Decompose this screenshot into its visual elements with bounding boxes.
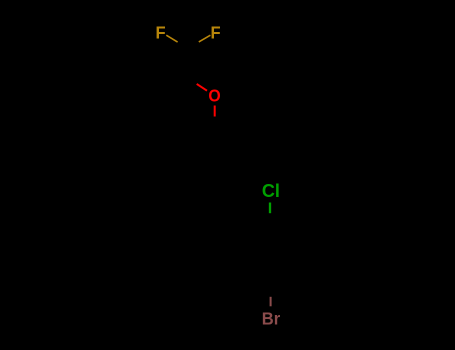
bond F1-C1 colored half — [166, 35, 177, 42]
ring A inner double bonds — [220, 134, 238, 144]
bond C2-O colored half — [197, 84, 207, 91]
ring B benzene — [243, 224, 299, 288]
ring A benzene — [187, 127, 242, 191]
bond O-A1 colored half — [214, 106, 216, 117]
svg-text:O: O — [208, 85, 220, 105]
bond C1-F1 black half — [178, 42, 188, 49]
bond B1-Cl black half — [269, 213, 271, 224]
bond F2-C1 colored half — [199, 35, 211, 42]
bond C2-O — [187, 77, 210, 91]
bond Cl-B1 colored half — [269, 203, 271, 214]
wire: carbon skeleton (black, invisible on black background) — [178, 42, 298, 297]
bond Br-B4 colored half — [270, 297, 272, 307]
svg-text:Cl: Cl — [262, 181, 280, 201]
bond O-A1 — [214, 105, 216, 128]
svg-text:Br: Br — [262, 308, 281, 329]
bond B4-Br black half — [269, 288, 271, 297]
svg-text:F: F — [155, 22, 165, 43]
bond C1-F2 black half — [188, 42, 199, 49]
svg-text:F: F — [210, 22, 220, 43]
bond C1-C2 — [186, 49, 189, 78]
bond A4-C3 — [215, 191, 243, 207]
bond C3-B6 — [241, 207, 243, 240]
ring B inner double bonds — [275, 230, 293, 240]
